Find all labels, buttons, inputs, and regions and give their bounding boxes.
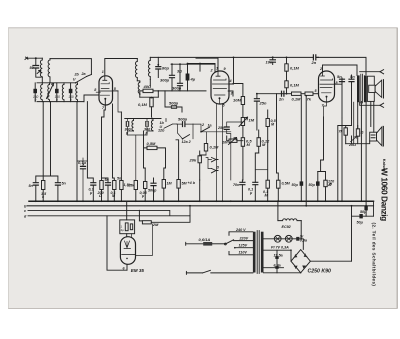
wire col93 down (92, 185, 94, 201)
capacitor 0,05u mid (144, 182, 147, 189)
capacitor 5n left2 (55, 183, 60, 185)
wire em35 riser a (126, 201, 128, 220)
band switch contact dot (75, 82, 77, 84)
wire OT primary top (356, 65, 358, 75)
wire bridge feed down (351, 216, 353, 261)
paper right edge (396, 28, 398, 309)
potentiometer 2M tone (229, 139, 237, 142)
wire 50u rail right (352, 206, 374, 216)
coil IF1a left winding (136, 59, 138, 81)
node pin9 wire2 (199, 63, 201, 65)
wire B+ to 2n cap (273, 56, 313, 58)
wire OT left winding down (357, 102, 359, 130)
wire 0,5M af2 down (242, 146, 244, 180)
svg-text:50μ: 50μ (292, 183, 299, 187)
wire 5n col108 down (107, 185, 109, 201)
wire 170ohm (318, 160, 326, 201)
svg-text:5n: 5n (350, 74, 355, 79)
resistor 0,5M det2 (266, 119, 269, 127)
capacitor 300p b (178, 83, 183, 85)
coil F3 (62, 83, 64, 102)
switch 2a second arm (183, 135, 190, 139)
node dots bus a (35, 200, 367, 202)
wire 1,5k col121 down (120, 190, 122, 202)
wire det top rail (125, 118, 161, 120)
svg-text:1M: 1M (249, 118, 255, 123)
node avc mid (179, 63, 181, 65)
capacitor 2n det (282, 91, 284, 96)
coil IF2b (151, 120, 153, 131)
svg-text:c: c (24, 209, 26, 213)
svg-text:9: 9 (56, 98, 58, 102)
capacitor 5n left1 (33, 183, 38, 185)
capacitor antenna series (33, 66, 39, 69)
svg-text:10n: 10n (266, 60, 273, 65)
wire OT right winding down (370, 102, 372, 127)
svg-text:80p: 80p (162, 66, 169, 71)
wire 500p agc (165, 91, 182, 112)
bus c (28, 210, 170, 215)
coil F4 (76, 83, 78, 102)
svg-text:500p: 500p (169, 101, 179, 106)
capacitor 5n b (349, 79, 354, 81)
wire tap 19V (264, 249, 292, 251)
wire V2 pin1 top (196, 58, 218, 71)
wire trimmer3 (56, 83, 58, 102)
coil F1 (41, 83, 43, 102)
wire feedback rail (338, 126, 352, 202)
V1 pin8 stub left (96, 91, 100, 93)
mains switch arm (203, 270, 211, 273)
capacitor 50u psu1 (364, 206, 367, 210)
wire 40ohm right rail (153, 91, 206, 97)
wire 25n upper (256, 94, 258, 131)
node avc 4u dot (187, 63, 189, 65)
wire V1 pin bottom down (104, 99, 105, 117)
svg-text:20k: 20k (189, 158, 197, 163)
wire V1 pin5 right (113, 90, 119, 92)
capacitor 25n grid (224, 127, 229, 129)
V2 internal grids (213, 79, 226, 95)
svg-text:0,1M: 0,1M (290, 66, 300, 71)
svg-text:Ω: Ω (360, 131, 364, 135)
wire 2M tone left (227, 136, 243, 141)
wire IF2b pair (147, 119, 153, 136)
svg-text:70n: 70n (233, 183, 240, 187)
wire IF1a bottom (137, 81, 140, 97)
tap 125V dot (234, 247, 236, 249)
wire heater tap drop (276, 250, 278, 273)
resistor 170ohm (324, 180, 327, 187)
svg-text:D: D (217, 166, 220, 170)
node pin9 wire (187, 63, 189, 65)
wire avc rail (171, 63, 215, 65)
svg-text:2n: 2n (278, 97, 284, 102)
capacitor heater bypass 1 (275, 256, 278, 259)
em35 internal fan (125, 241, 130, 247)
node bridge tap dot (290, 249, 292, 251)
coil IF1a lower winding (138, 82, 140, 95)
wire col108 (102, 178, 109, 183)
wire V2 pin4 right (229, 57, 234, 84)
wire heater right down (300, 221, 302, 239)
svg-text:1: 1 (216, 67, 218, 71)
coil block bottom rail (37, 101, 84, 103)
svg-text:W 1060 Danzig: W 1060 Danzig (380, 168, 390, 221)
bridge rectifier diamond (291, 250, 310, 273)
wire T1 top to right (50, 59, 91, 75)
svg-text:4μ: 4μ (190, 77, 196, 82)
capacitor 50u psu2 (359, 214, 362, 218)
tube V1 envelope (99, 76, 113, 105)
wire 20k (200, 151, 206, 180)
svg-text:1a: 1a (208, 124, 212, 128)
wire 5M mid (176, 140, 179, 201)
wire IF2a pair (128, 119, 134, 136)
capacitor 4u electrolytic (186, 74, 190, 81)
wire transformer bottom to bridge (264, 272, 301, 274)
wire block to tube grid (84, 95, 99, 102)
wire 200ohm down (101, 190, 103, 202)
fuse 0,6/1A (203, 242, 212, 246)
wire em35 riser b (139, 210, 142, 221)
tap 220V (234, 240, 253, 242)
svg-text:+4 b: +4 b (188, 181, 196, 185)
switch 1b arm (164, 119, 177, 129)
node 25n top (256, 93, 258, 95)
wire OT mid taps down (361, 102, 366, 207)
wire col112 (113, 104, 115, 181)
svg-text:4: 4 (229, 79, 232, 83)
svg-text:125V: 125V (239, 244, 248, 248)
wire 0,5M af right (157, 148, 166, 168)
heater coil EC92 (278, 219, 301, 221)
wire 2M right (151, 215, 190, 222)
svg-text:0,1M: 0,1M (290, 83, 300, 88)
wire wave switch box (178, 124, 194, 139)
wire 500p mid (153, 178, 155, 201)
V3 internal grids (320, 79, 332, 93)
wire 0,12M (258, 130, 260, 153)
resistor 1,5k col121 (120, 181, 123, 190)
wire em35 grid in (126, 234, 128, 237)
wire junction down to cap (35, 58, 37, 65)
coil IF1b right winding (149, 57, 151, 79)
bridge diode tick 4 (303, 266, 306, 269)
resistor 0,5M af (147, 146, 157, 149)
node pin4 rail (233, 57, 235, 59)
capacitor 50u cath1 (300, 181, 304, 185)
capacitor 0,1u left (81, 166, 86, 168)
wire 300p drop2 (179, 64, 181, 91)
em35 coupling box (120, 220, 135, 234)
wire trimmer1 (34, 83, 36, 102)
svg-text:300p: 300p (160, 78, 170, 83)
node 40ohm rail dot (158, 90, 160, 92)
svg-text:12b: 12b (158, 129, 165, 133)
tap 125V (235, 247, 253, 249)
svg-text:EC92: EC92 (282, 225, 292, 229)
tube V3 envelope (319, 71, 335, 102)
wire fuse to selector (212, 243, 225, 245)
wire V2 pin9 (188, 64, 216, 72)
resistor 0,1M lower (285, 81, 288, 88)
OT primary winding bar (357, 75, 360, 102)
capacitor 0,1u mid (253, 182, 258, 184)
wire cap down to coil bottom (36, 68, 41, 77)
svg-text:25n: 25n (217, 126, 225, 130)
wire OT primary return (353, 102, 355, 144)
node column top (286, 57, 288, 59)
svg-text:5n: 5n (117, 177, 122, 181)
wire af return long (305, 96, 307, 206)
node af return top (305, 95, 307, 97)
svg-text:500p: 500p (178, 117, 188, 122)
wire V1 pin1 top up (105, 59, 138, 75)
wire speaker1 terminal top (360, 71, 380, 73)
resistor 0,1M horizontal (292, 92, 302, 95)
V2 cathode dot (219, 97, 221, 99)
wire em35 heater in (131, 234, 133, 238)
node avc left (171, 63, 173, 65)
wire 70n (241, 180, 244, 201)
mains terminal top (185, 242, 187, 245)
svg-text:4μ: 4μ (121, 228, 125, 232)
svg-text:12a 2: 12a 2 (182, 140, 192, 144)
wire 5n b col down (351, 118, 353, 126)
switch 1a arm (201, 127, 210, 132)
transformer primary winding bar (253, 232, 256, 273)
wire 10n (272, 57, 274, 64)
wire 2n to OT (318, 57, 366, 74)
transformer secondary winding bar (261, 232, 264, 273)
jack lower (212, 169, 219, 173)
svg-text:0,1M: 0,1M (138, 102, 148, 107)
wire 80p drop (157, 57, 159, 77)
em35 box cap (130, 224, 132, 230)
wire 50u cath2 (317, 172, 319, 202)
capacitor 70n (240, 182, 245, 184)
wire crossbar 0,1u-0,1M (255, 169, 267, 171)
selector arm (226, 240, 233, 244)
wire jacks (206, 158, 212, 169)
wire 0,05u down (144, 168, 146, 201)
capacitor 500p agc (172, 106, 177, 108)
svg-text:5n: 5n (62, 182, 67, 186)
svg-text:0,6/1A: 0,6/1A (199, 237, 211, 242)
V3 cathode dot (326, 96, 328, 98)
svg-text:C250 K90: C250 K90 (308, 268, 331, 274)
wire 500p det (177, 123, 194, 125)
em35 cathode dot (126, 258, 128, 260)
node B+ junction (272, 56, 274, 58)
node antenna junction (35, 57, 37, 59)
arrow 170ohm adj (329, 183, 332, 186)
coil IF2a (132, 120, 134, 131)
node 2a arm (200, 131, 202, 133)
svg-text:2n: 2n (311, 60, 317, 65)
wire 0,1M col114 down (113, 190, 115, 202)
svg-text:7k: 7k (307, 97, 312, 102)
wire between column resistors (286, 71, 288, 81)
wire V1 cathode col (102, 117, 105, 181)
dial lamp 2 cross (287, 237, 291, 241)
dial lamp 2 (285, 235, 292, 242)
dial lamp 1 cross (276, 237, 280, 241)
speaker2 horn (377, 127, 382, 146)
bus a (top, thick) (29, 200, 374, 202)
coil T1 primary (48, 59, 50, 77)
V3 top stem (321, 71, 325, 76)
resistor 5M mid (177, 180, 180, 189)
trimmer cap block 4 (69, 89, 73, 93)
coil block top rail (37, 82, 76, 84)
svg-text:0,1M: 0,1M (292, 97, 302, 102)
svg-text:2a: 2a (81, 72, 86, 76)
svg-text:0,1μ: 0,1μ (78, 160, 87, 165)
wire af verticals down (227, 134, 231, 181)
V1 anode line (100, 90, 113, 92)
wire column to det rail (286, 88, 288, 94)
wire 0,1M mid-right (267, 110, 269, 201)
wire to 7k (301, 93, 305, 95)
svg-text:1: 1 (102, 70, 104, 74)
wire 1,5k mid down (135, 190, 137, 202)
bridge diode tick 1 (294, 255, 297, 258)
svg-text:1,5k: 1,5k (127, 184, 135, 188)
resistor 0,5M mid-right (277, 180, 280, 188)
wire 25n grid (227, 122, 243, 134)
svg-text:9: 9 (35, 98, 37, 102)
node dots bus b (189, 205, 367, 207)
wire col121 (120, 112, 122, 181)
mains terminal bottom (185, 271, 187, 274)
resistor 0,1M screen (150, 98, 153, 107)
em35 target chord (122, 253, 135, 255)
wire IF2 bottom rail (128, 135, 148, 181)
wire vertical x77 (76, 102, 78, 202)
resistor secondary box (356, 129, 359, 136)
svg-text:25n: 25n (259, 101, 267, 106)
resistor 20k (198, 156, 201, 163)
svg-text:U: U (73, 78, 76, 82)
potentiometer 1M (241, 118, 244, 126)
wire V3 pin8 right (335, 78, 343, 84)
wire trimmer4 (70, 83, 72, 102)
wire em35 anode右 (136, 224, 153, 255)
wire mid rail (140, 96, 159, 98)
wire screen resistor down (151, 97, 153, 117)
wire 5n left2 down (57, 185, 59, 201)
trimmer cap block 1 (33, 89, 37, 93)
resistor 0,5M af2 (241, 138, 244, 147)
core arrow F2 (47, 84, 54, 99)
wire 20k down (199, 180, 201, 201)
svg-text:50μ: 50μ (309, 183, 316, 187)
wire speaker2 bottom (346, 141, 370, 144)
resistor 7k feedback (344, 128, 347, 135)
resistor 1M mid (162, 180, 165, 189)
wire 1M mid (164, 168, 166, 201)
selector pivot (225, 243, 227, 245)
svg-text:5n: 5n (29, 184, 34, 188)
wire IF1b top rail to V2 (150, 56, 272, 58)
wire feedback bottom rail (352, 136, 358, 144)
wire 0,1M det (205, 132, 208, 155)
speaker2 horn mouth (382, 126, 384, 146)
wire 19V to bridge (290, 250, 292, 261)
wire switch up right (87, 75, 92, 77)
em35 tube envelope (120, 237, 135, 265)
wire 0,5M mid-right (277, 130, 279, 201)
bus b (27, 205, 374, 207)
wire V3 cathode down (321, 117, 324, 160)
tap 110V (229, 252, 253, 255)
paper left edge (7, 28, 9, 309)
wire stub col121 top (118, 91, 121, 112)
wire left group crossbar (36, 102, 58, 183)
dial lamp 1 (274, 235, 281, 242)
bridge diode tick 2 (304, 254, 307, 257)
svg-text:240 V: 240 V (235, 228, 246, 232)
capacitor 80p (156, 67, 161, 69)
resistor 200ohm (100, 181, 103, 190)
capacitor 500p det (183, 122, 185, 127)
capacitor 500p mid (151, 183, 156, 185)
capacitor 5n col108 (106, 183, 111, 185)
wire heater riser (277, 201, 279, 220)
V3 anode line (320, 83, 335, 85)
svg-text:110V: 110V (239, 251, 248, 255)
speaker1 horn (375, 80, 382, 97)
wire IF1b bottom (149, 80, 151, 86)
wire V2 pin3 right (228, 91, 233, 96)
bus d (28, 206, 190, 216)
resistor 1,5k left (42, 181, 45, 190)
pot 2M arrow (229, 138, 237, 145)
svg-text:5n: 5n (337, 74, 342, 79)
wire secondary box (357, 126, 359, 129)
svg-text:0,5M: 0,5M (147, 141, 157, 146)
wire 0,1u mid (255, 153, 258, 201)
wire antenna to junction (27, 57, 42, 59)
coil F2 with core arrow (48, 83, 50, 102)
speaker2 magnet dashes (371, 135, 375, 138)
V1 grid lines (100, 83, 109, 96)
wire T1 bottom stub (49, 77, 51, 83)
bridge diode tick 3 (294, 266, 297, 269)
wire pot 1M down (242, 126, 244, 138)
wire 0,1u left (77, 158, 87, 201)
wire 7k feedback (345, 126, 347, 144)
wire speaker2 feed (373, 101, 375, 132)
node lamp rail dot (300, 238, 302, 240)
capacitor 10n (270, 60, 275, 62)
capacitor heater bypass 2 (275, 266, 278, 269)
svg-text:40Ω: 40Ω (143, 84, 152, 89)
wire L1 bottom down (41, 77, 43, 83)
svg-text:50μ: 50μ (357, 221, 364, 225)
wire 5n a (341, 78, 343, 118)
bus right end post (373, 201, 375, 216)
fuse Si (296, 237, 299, 241)
trimmer cap block 3 (55, 89, 59, 93)
wire tap 6,3V (264, 267, 284, 269)
wire 10M up (233, 84, 243, 118)
tube V2 envelope (211, 71, 229, 104)
wire det rail (277, 93, 292, 95)
node 80p tap (157, 64, 159, 66)
